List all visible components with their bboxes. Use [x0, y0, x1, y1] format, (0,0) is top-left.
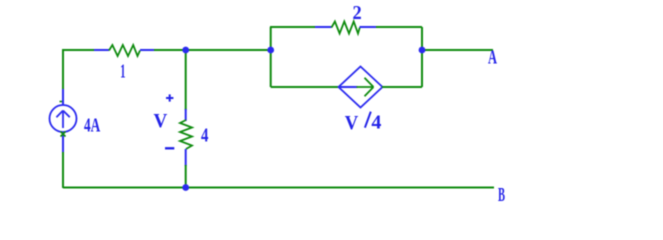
- svg-text:V: V: [154, 110, 168, 132]
- current source I1 circle: [50, 105, 77, 132]
- current source I1 arrow: [56, 111, 69, 129]
- resistor R2 zigzag: [332, 22, 360, 34]
- resistor R1 zigzag: [109, 45, 140, 56]
- wire to terminal A: [422, 49, 493, 51]
- svg-text:4: 4: [371, 112, 381, 134]
- wire parallel-box top left segment: [270, 26, 316, 28]
- wire R4 upper vertical: [185, 51, 187, 110]
- svg-text:4: 4: [201, 124, 208, 146]
- current source I1 pin-end marker top: [60, 101, 63, 103]
- wire parallel-box top right segment: [376, 26, 422, 28]
- resistor R2 lead left: [315, 26, 332, 28]
- svg-text:V: V: [345, 112, 359, 134]
- resistor R1 lead left: [94, 49, 109, 51]
- wire parallel-box bottom left segment: [271, 86, 339, 88]
- current source I1 pin top (blue lead): [62, 89, 64, 105]
- node junction left of parallel box: [267, 47, 274, 54]
- resistor R4 zigzag: [180, 120, 192, 149]
- resistor R4 lead bottom: [185, 149, 187, 166]
- wire parallel-box bottom right segment: [382, 86, 422, 88]
- node junction right of parallel box: [419, 47, 426, 54]
- wire parallel-box right vertical: [421, 27, 423, 87]
- wire parallel-box left vertical: [270, 27, 272, 87]
- svg-text:4A: 4A: [84, 115, 101, 137]
- dependent source B1 arrow shaft (blue): [340, 86, 358, 88]
- wire top-left vertical (source to top rail): [62, 50, 64, 90]
- current source I1 pin bottom (blue lead): [62, 132, 64, 153]
- svg-text:B: B: [498, 184, 505, 206]
- wire top rail right segment: [186, 49, 272, 51]
- resistor R2 lead right: [360, 26, 377, 28]
- node junction top of R4: [182, 47, 189, 54]
- wire bottom rail: [63, 187, 494, 189]
- current source I1 pin-end marker bottom (x): [61, 132, 66, 137]
- svg-text:2: 2: [353, 2, 362, 24]
- node junction bottom of R4: [182, 184, 189, 191]
- dependent source B1 arrow (green): [357, 78, 374, 96]
- wire top rail mid segment: [154, 49, 186, 51]
- voltage label plus sign: [166, 94, 173, 101]
- wire top rail left segment: [62, 49, 95, 51]
- wire bottom-left vertical: [62, 152, 64, 188]
- svg-text:A: A: [488, 47, 497, 69]
- dependent source B1 diamond: [339, 67, 383, 108]
- resistor R1 lead right: [140, 49, 155, 51]
- resistor R4 lead top: [185, 109, 187, 121]
- svg-text:1: 1: [120, 60, 125, 82]
- voltage label minus sign: [165, 147, 174, 149]
- wire R4 lower vertical: [185, 165, 187, 188]
